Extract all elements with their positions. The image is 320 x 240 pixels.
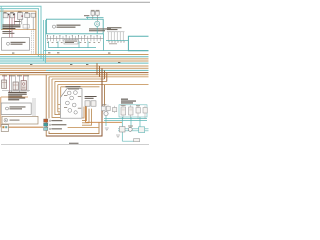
relay box R4 [143, 108, 147, 114]
bus wire tan 2 [0, 65, 149, 67]
wire teal row 1 [104, 118, 147, 120]
relay rail grey [2, 90, 30, 92]
wire pin group top rail [107, 31, 125, 33]
label text above fuses [3, 11, 6, 14]
footer rule [1, 143, 149, 146]
gauge circle U1 [95, 21, 100, 26]
component box A (alternator) [2, 38, 30, 51]
fuse box F5 top-middle [96, 11, 100, 15]
staircase brown drop to connector [104, 85, 106, 106]
box B text line1 [57, 25, 81, 26]
wire teal vertical drop left 2 [45, 20, 47, 63]
bus wire tan 4 left [0, 69, 46, 71]
footer text [69, 143, 79, 144]
node circle in box A [7, 42, 10, 45]
bus wire tan 3b right [46, 60, 149, 62]
wire teal vertical r2 [130, 117, 132, 129]
gauge circle G5 [72, 103, 76, 107]
connector block cluster top-left: fuse box F1 [3, 13, 8, 18]
wire teal row 4 [118, 130, 149, 132]
teal outline box lower right [119, 105, 147, 117]
fuse box F3b [31, 13, 35, 17]
bus wire tan 2b right [46, 58, 149, 60]
connector pin group CN2 [108, 32, 123, 41]
node circle in box C [6, 107, 9, 110]
connector pin group text top-right [107, 27, 122, 28]
legend swatch text 2 [49, 124, 51, 126]
fuse box F4 top-middle [91, 11, 95, 15]
relay box R3 [136, 108, 140, 114]
connector boxes pair 1 [85, 101, 90, 106]
cluster title text [66, 86, 81, 87]
text under gauge line2 [89, 30, 105, 31]
bus wire teal 2 left [0, 58, 46, 60]
wire maroon drop 3 [14, 16, 16, 25]
bus wire teal 1 [0, 56, 149, 58]
wire teal left edge vertical 2 [2, 9, 4, 30]
junction box B (teal outlined) [46, 19, 103, 34]
pin labels [109, 42, 117, 45]
wrap wire brown 5 [58, 85, 61, 112]
frame top border line [0, 1, 150, 4]
legend swatch wire colour 2 [44, 123, 48, 126]
pin dot A [8, 14, 10, 16]
strip pin labels row [47, 41, 100, 44]
legend swatch wire colour 1 [44, 119, 48, 122]
fuse box F3 [25, 13, 30, 17]
wire code labels on bus [12, 52, 120, 65]
relay box R2 [129, 107, 133, 115]
wire orange relay feed [1, 97, 28, 115]
legend backing [49, 118, 68, 131]
wire teal row 3 [118, 128, 149, 130]
motor circle M1 [104, 112, 108, 116]
wire teal left edge vertical 1 [0, 6, 2, 29]
wrap wire brown 3 [52, 79, 105, 117]
wire maroon drop 2 [11, 18, 13, 38]
bus wire tan 3 [0, 67, 149, 69]
wire tan nested box top-left [0, 11, 36, 54]
wire teal nested box 1 top-left [0, 6, 41, 58]
wire teal pin group to right box [106, 40, 128, 42]
wire teal link box B to bus [44, 34, 149, 51]
small text block below rail [2, 31, 11, 32]
staircase brown vertical 1 [96, 63, 98, 75]
wrap wire brown 6 [61, 87, 100, 98]
wire orange bottom-left [1, 126, 43, 128]
wire teal short drop at W/BL [87, 17, 89, 20]
cluster small text marks [64, 94, 67, 97]
bus wire teal 3 left [0, 60, 46, 62]
ground symbol 1 [105, 128, 109, 130]
wire drops from F4 F5 [92, 15, 94, 19]
small labels right cluster [101, 103, 106, 106]
box A text [11, 42, 26, 43]
terminal strip ticks [48, 36, 101, 41]
motor circle M2 [128, 127, 132, 131]
gauge circle G6 [68, 109, 72, 113]
gauge circle G3 [70, 96, 74, 100]
battery text [10, 120, 20, 121]
wire stubs into cluster left edge [58, 104, 60, 113]
legend swatch text 3 [49, 128, 51, 130]
gauge circle G7 [74, 111, 77, 114]
bottom-left component labels row [2, 74, 7, 77]
wrap wire brown 2 [49, 77, 99, 134]
connector box on orange wire [1, 125, 8, 132]
wire teal row 2 [104, 120, 147, 122]
relay component K3 [13, 82, 18, 90]
component box lower right 1 [119, 127, 125, 132]
pin dot B [13, 14, 15, 16]
relay box K1 [18, 13, 23, 20]
wire teal drop from gauge [96, 27, 98, 34]
gauge circle G2 [74, 91, 78, 95]
terminal strip TS1 rail [46, 37, 103, 39]
legend swatch text 1 [49, 120, 51, 122]
label strip text block [2, 24, 20, 25]
wire teal drops from strip [49, 41, 96, 47]
label W/BL [84, 15, 89, 16]
wire teal vertical r1 [121, 117, 123, 141]
small label box mid cluster [23, 25, 29, 29]
wire teal vertical m [105, 116, 107, 126]
small box CN3 [112, 108, 116, 112]
component box C (alternator lower) [1, 103, 31, 114]
wrap wire brown 4 [55, 81, 107, 114]
dense label block bottom-left [8, 92, 27, 93]
wire maroon drop 1 [8, 16, 10, 38]
relay component K4 [21, 81, 26, 90]
connector boxes pair 2 [101, 106, 105, 110]
staircase brown vertical 3 [46, 68, 102, 136]
wire teal link above box B [86, 17, 104, 19]
relay component K2 [2, 80, 7, 88]
staircase brown vertical 2 [99, 66, 101, 77]
ground symbol 2 [116, 135, 120, 137]
wire orange horizontal row [86, 121, 123, 123]
wire grey drop from relay K1 [18, 19, 20, 24]
staircase brown vertical 5 [106, 73, 108, 82]
bus wire tan 7 right part [58, 84, 149, 86]
wire tan below legend [62, 127, 99, 129]
bus wire tan 6 right part [49, 76, 149, 78]
pin dot C [21, 15, 22, 16]
wire orange left vertical [0, 115, 2, 128]
instrument cluster box [60, 89, 82, 119]
wire orange drop centre [85, 106, 87, 122]
pin hooks [108, 41, 124, 43]
gauge circle G1 [67, 91, 71, 95]
wire teal nested box 2 top-left [0, 9, 38, 57]
gauge circle G4 [66, 101, 70, 105]
battery box bottom-left flat [2, 116, 38, 124]
terminal strip pin dots [47, 35, 98, 36]
box C text [10, 106, 26, 107]
bus wire tan 1 [0, 54, 149, 56]
legend swatch wire colour 3 [44, 127, 48, 130]
staircase brown vertical 4 [104, 70, 106, 79]
wire teal vertical drop left [43, 20, 45, 61]
wire teal bottom row [122, 140, 140, 142]
tick marks bottom-right row [103, 105, 145, 119]
bus wire brown [0, 72, 149, 74]
bus wire teal 4 [0, 62, 149, 64]
wrap wire brown 1 [46, 75, 102, 136]
bus wire teal 4b right [46, 69, 149, 71]
wire tan cluster bottom rail [1, 29, 36, 31]
battery terminal symbol [4, 118, 8, 122]
bus wire tan 5 [0, 74, 149, 76]
wire grey drop from relay K1 pin2 [21, 19, 23, 24]
strip label box [64, 40, 78, 44]
box B text line2 [57, 27, 76, 28]
bold label defogger [121, 99, 128, 100]
relay box R1 [121, 107, 126, 115]
wire grey dashes right of box A [31, 31, 33, 55]
node circle in box B [52, 25, 55, 28]
junction box right (teal) [128, 36, 148, 51]
wire stubs right of cluster box [82, 107, 92, 126]
wire grey drop from F3 [26, 18, 28, 30]
wire grey drop from F3b [32, 17, 34, 29]
bottom-centre label text [85, 96, 97, 97]
component box lower right 2 [139, 127, 145, 133]
wires down to relays [3, 75, 5, 80]
labels above F4 F5 [91, 9, 95, 12]
strip label text [65, 40, 77, 43]
small text fragment mid cluster [14, 21, 20, 22]
wire grey verticals right of box C [33, 98, 35, 116]
text under gauge line1 [89, 28, 111, 29]
fuse box F2 [10, 13, 15, 18]
wire teal vertical r3 [139, 117, 141, 129]
